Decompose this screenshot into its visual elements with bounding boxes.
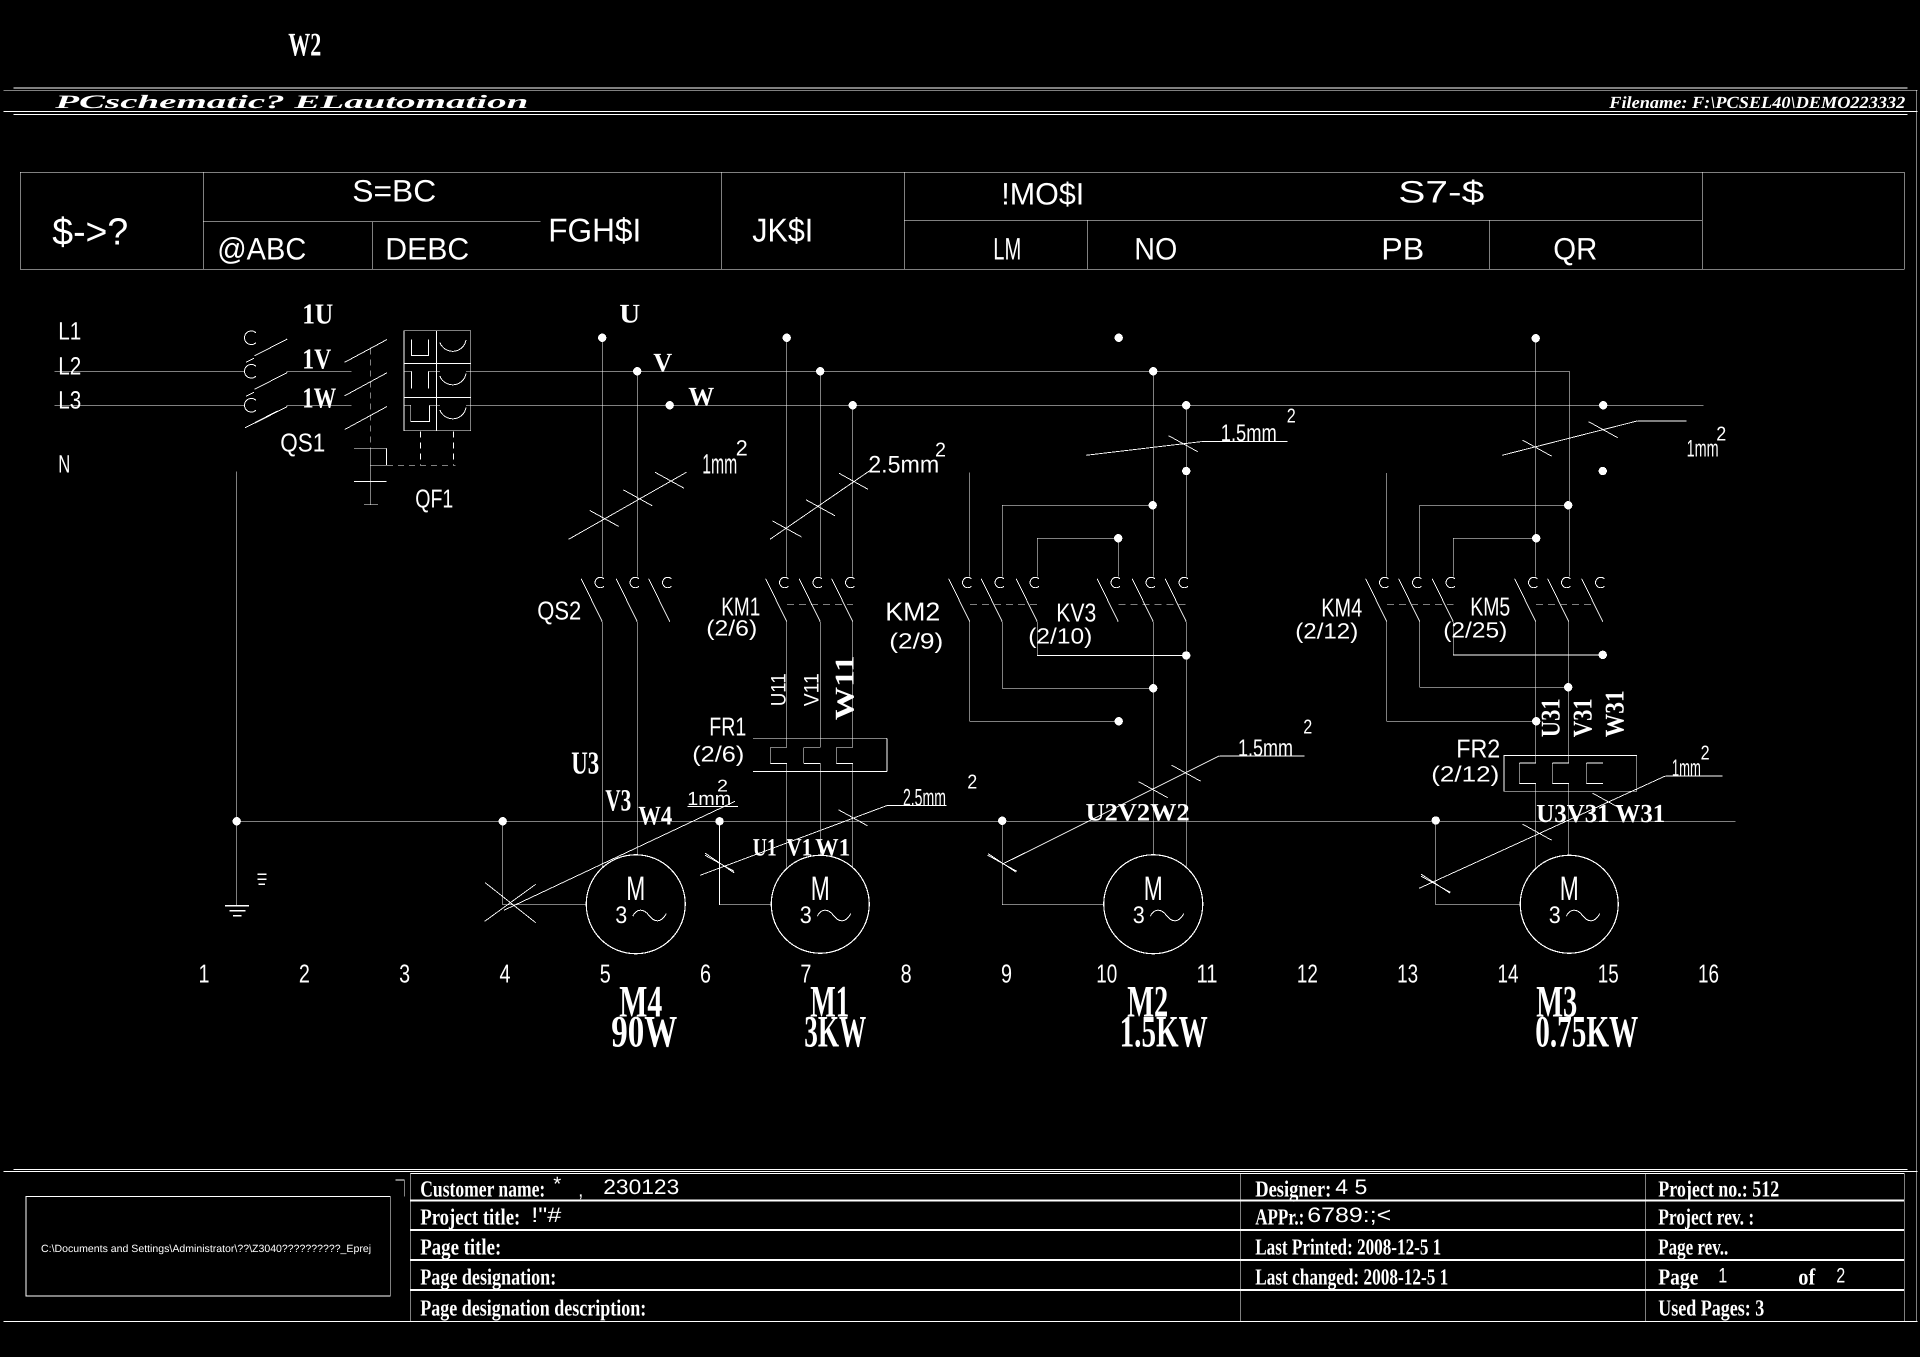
svg-text:L3: L3	[58, 386, 81, 414]
header table frame	[20, 172, 1904, 269]
label 1mm2 top right	[1687, 423, 1727, 462]
svg-text:$->?: $->?	[52, 211, 128, 253]
label 1U	[302, 298, 333, 330]
top border double rule	[3, 88, 1917, 115]
svg-text:U: U	[619, 298, 640, 328]
contactor KM5 pole 1	[1515, 577, 1538, 621]
wire W1 to motor M1	[852, 764, 854, 868]
KM4 linkage dashed	[1387, 604, 1454, 606]
svg-text:(2/9): (2/9)	[889, 628, 943, 653]
svg-text:10: 10	[1096, 958, 1117, 988]
wire V2 to motor M2	[1152, 622, 1154, 855]
svg-text:QS1: QS1	[280, 427, 325, 457]
node W feeder tap 2	[849, 401, 857, 409]
field page number	[1658, 1264, 1845, 1290]
svg-text:L1: L1	[58, 317, 81, 345]
label W	[688, 381, 714, 411]
field last changed	[1255, 1264, 1448, 1290]
FR2 heater 1	[1519, 763, 1536, 784]
wire 1W segment	[286, 404, 351, 406]
cable mark 1mm2 feeder M4	[569, 472, 687, 539]
label W31 rotated	[1599, 690, 1629, 737]
motor M2	[1104, 855, 1203, 954]
node W feeder tap 4	[1599, 401, 1607, 409]
svg-text:QR: QR	[1553, 231, 1597, 266]
svg-text:5: 5	[600, 958, 611, 988]
header cell FGH$I	[548, 211, 641, 248]
field page rev	[1658, 1234, 1728, 1260]
svg-text:V3: V3	[605, 782, 631, 817]
wire U31 upper	[1535, 622, 1537, 763]
label FR1	[709, 711, 746, 741]
svg-text:4: 4	[499, 958, 510, 988]
KM2 feed elbows	[969, 472, 971, 576]
PE mark	[257, 874, 266, 884]
svg-text:2: 2	[1303, 716, 1312, 738]
wire V3 down to KV3	[1152, 371, 1154, 576]
contactor KM1 pole 1	[766, 577, 789, 621]
svg-text:2: 2	[1287, 405, 1296, 427]
node V4 tap KM4	[1564, 501, 1572, 509]
svg-text:1.5mm: 1.5mm	[1238, 735, 1293, 762]
svg-text:Customer name:: Customer name:	[420, 1176, 545, 1201]
neutral conductor to earth bus	[236, 471, 238, 905]
svg-text:(2/6): (2/6)	[706, 615, 757, 640]
svg-text:QS2: QS2	[537, 595, 581, 625]
svg-text:3: 3	[1549, 902, 1561, 929]
svg-text:C:\Documents and Settings\Ad: C:\Documents and Settings\Administrator\…	[41, 1243, 371, 1255]
svg-text:1mm: 1mm	[1672, 755, 1701, 782]
value customer name	[553, 1173, 679, 1201]
contactor KV3 pole 2	[1132, 577, 1155, 621]
svg-text:W: W	[688, 381, 714, 411]
KM4 cross reference	[1295, 618, 1358, 643]
svg-text:Page designation:: Page designation:	[420, 1264, 556, 1290]
header filename label	[1608, 93, 1906, 112]
svg-text:2: 2	[736, 435, 748, 460]
svg-text:90W: 90W	[611, 1006, 677, 1056]
wire V31 upper	[1568, 622, 1570, 763]
contactor KM1 label	[721, 591, 760, 621]
wire 1V segment	[286, 370, 351, 372]
svg-text:FR2: FR2	[1456, 733, 1500, 763]
svg-text:7: 7	[800, 958, 811, 988]
svg-text:3KW: 3KW	[804, 1006, 866, 1056]
node U feeder tap 4	[1532, 334, 1540, 342]
header title PCschematic ELautomation	[53, 92, 528, 113]
svg-text:12: 12	[1297, 958, 1318, 988]
field approved	[1255, 1204, 1391, 1230]
svg-text:Project rev. :: Project rev. :	[1658, 1204, 1754, 1229]
cable cross M1 PE	[705, 853, 734, 873]
contactor KM2 pole 1	[949, 577, 972, 621]
svg-text:13: 13	[1397, 958, 1418, 988]
field project no	[1658, 1176, 1779, 1201]
label M3	[1536, 976, 1577, 1026]
wire U4 down to KM5	[1535, 338, 1537, 576]
motor M3	[1520, 855, 1618, 953]
svg-text:M: M	[1560, 870, 1579, 908]
label U1 V1 W1	[753, 834, 851, 861]
svg-text:1.5mm: 1.5mm	[1221, 420, 1277, 447]
label 3KW	[804, 1006, 866, 1056]
label V	[653, 347, 672, 377]
cable cross M3 PE	[1421, 874, 1450, 893]
contactor KM1 pole 3	[832, 577, 855, 621]
contactor KM4 label	[1321, 592, 1362, 622]
cable mark 2.5mm2 motor M1	[700, 806, 946, 876]
label U31 rotated	[1535, 698, 1565, 737]
label 1V	[302, 343, 331, 375]
label U	[619, 298, 640, 328]
label 90W	[611, 1006, 677, 1056]
svg-text:@ABC: @ABC	[217, 231, 306, 266]
disconnect switch QS1	[244, 331, 287, 428]
svg-text:!MO$I: !MO$I	[1001, 176, 1084, 211]
contactor KM5 pole 2	[1548, 577, 1571, 621]
svg-text:M: M	[1144, 870, 1163, 908]
label 2.5mm2 top	[868, 439, 946, 478]
label M2	[1127, 976, 1168, 1026]
svg-text:!"#: !"#	[531, 1204, 561, 1227]
page right border	[1916, 90, 1918, 1321]
svg-text:(2/12): (2/12)	[1431, 761, 1499, 786]
svg-text:1.5KW: 1.5KW	[1120, 1006, 1208, 1056]
switch QS2 label	[537, 595, 581, 625]
svg-text:11: 11	[1197, 958, 1218, 988]
svg-text:W4: W4	[638, 800, 672, 830]
header cell @ABC	[217, 231, 306, 266]
FR1 heater 3	[836, 747, 853, 763]
PE drop to M3	[1432, 816, 1521, 905]
label W4	[638, 800, 672, 830]
header cell NO	[1134, 231, 1177, 266]
svg-text:APPr.:: APPr.:	[1255, 1204, 1304, 1229]
switch QS2 pole 3	[649, 577, 672, 621]
value project title	[531, 1204, 561, 1227]
svg-text:U3V31 W31: U3V31 W31	[1536, 799, 1665, 828]
svg-text:2.5mm: 2.5mm	[868, 451, 939, 478]
cable cross M4 PE	[485, 883, 536, 923]
field page title	[420, 1234, 501, 1260]
wire V3 to motor M4	[636, 622, 638, 855]
KM2 linkage dashed	[970, 604, 1038, 606]
field designer	[1255, 1176, 1367, 1203]
FR2 cross reference	[1431, 761, 1499, 786]
svg-text:(2/10): (2/10)	[1028, 623, 1092, 648]
cable cross M2 PE	[988, 854, 1017, 873]
KM1 cross reference	[706, 615, 757, 640]
svg-text:N: N	[58, 450, 70, 478]
wire U31 to motor M3	[1535, 783, 1537, 868]
svg-text:1U: 1U	[302, 298, 333, 330]
svg-text:S7-$: S7-$	[1398, 174, 1484, 209]
svg-text:4 5: 4 5	[1335, 1176, 1367, 1199]
cable mark 1mm2 feeder M3	[1502, 421, 1686, 456]
svg-text:9: 9	[1001, 958, 1012, 988]
project file box	[26, 1197, 390, 1297]
switch QS2 pole 1	[581, 577, 604, 621]
wire V down to QS2	[636, 371, 638, 576]
title block table	[395, 1174, 1904, 1322]
label 1.5KW	[1120, 1006, 1208, 1056]
KM5 cross reference	[1443, 617, 1507, 642]
label V31 rotated	[1567, 698, 1597, 737]
contactor KM5 label	[1470, 591, 1510, 621]
header cell $->?	[52, 211, 128, 253]
svg-text:Used Pages: 3: Used Pages: 3	[1658, 1295, 1764, 1321]
svg-text:NO: NO	[1134, 231, 1177, 266]
V phase bus	[471, 370, 1570, 372]
contactor KV3 pole 3	[1165, 577, 1188, 621]
thermal overload FR2	[1504, 756, 1637, 792]
thermal overload FR1	[753, 738, 887, 771]
bottom border double rule	[3, 1169, 1917, 1171]
svg-text:U11: U11	[767, 673, 790, 706]
label 1.5mm2 M2	[1238, 716, 1312, 762]
contactor KM2 pole 2	[981, 577, 1004, 621]
contactor KV3 pole 1	[1097, 577, 1120, 621]
label 2.5mm2 M1	[903, 771, 977, 811]
svg-text:FGH$I: FGH$I	[548, 211, 641, 248]
wire U down to QS2	[601, 338, 603, 577]
svg-text:3: 3	[800, 902, 812, 929]
FR1 heater 2	[804, 747, 821, 763]
bottom frame line	[3, 1321, 1917, 1323]
svg-text:Page designation description:: Page designation description:	[420, 1295, 646, 1321]
svg-text:LM: LM	[993, 231, 1021, 266]
PE drop to M2	[998, 817, 1104, 905]
node W feeder tap 3	[1182, 401, 1190, 409]
contactor KV3 label	[1056, 597, 1096, 627]
KM2 output elbows	[970, 622, 1123, 726]
wire V1 to motor M1	[819, 764, 821, 856]
svg-text:1: 1	[199, 958, 210, 988]
svg-text:1mm: 1mm	[702, 448, 737, 479]
svg-text:V31: V31	[1567, 698, 1597, 737]
svg-text:2: 2	[1836, 1264, 1845, 1287]
svg-text:6: 6	[700, 958, 711, 988]
svg-text:1W: 1W	[302, 382, 336, 414]
label 1mm2 M4	[687, 776, 731, 810]
svg-text:2: 2	[1701, 742, 1710, 764]
label M1	[810, 976, 849, 1026]
label V3	[605, 782, 631, 817]
wire W down to KM1	[852, 405, 854, 576]
label U11 rotated	[767, 673, 790, 706]
svg-text:U2V2W2: U2V2W2	[1086, 799, 1190, 826]
file path text	[41, 1243, 371, 1255]
KV3 cross reference	[1028, 623, 1092, 648]
label U3V31 W31	[1536, 799, 1665, 828]
header cell PB	[1381, 231, 1424, 266]
svg-text:Last Printed: 2008-12-5 1: Last Printed: 2008-12-5 1	[1255, 1234, 1441, 1259]
wire U1 to motor M1	[786, 764, 788, 869]
contactor KM4 pole 3	[1432, 577, 1455, 621]
label L2	[58, 352, 81, 380]
header cell !MO$I	[1001, 176, 1084, 211]
header cell DEBC	[385, 231, 469, 266]
svg-text:Project no.: 512: Project no.: 512	[1658, 1176, 1779, 1201]
svg-text:(2/12): (2/12)	[1295, 618, 1358, 643]
svg-text:FR1: FR1	[709, 711, 746, 741]
svg-text:0.75KW: 0.75KW	[1535, 1006, 1638, 1056]
label QS1	[280, 427, 325, 457]
node V feeder tap 2	[816, 367, 824, 375]
svg-text:W11: W11	[829, 655, 859, 720]
field last printed	[1255, 1234, 1441, 1259]
field customer name	[420, 1176, 545, 1201]
svg-text:V11: V11	[800, 673, 823, 706]
svg-text:2: 2	[967, 771, 977, 793]
svg-text:14: 14	[1497, 958, 1518, 988]
svg-text:S=BC: S=BC	[352, 173, 436, 208]
cable mark 1.5mm2 feeder M2	[1086, 436, 1287, 456]
svg-text:Last changed: 2008-12-5 1: Last changed: 2008-12-5 1	[1255, 1264, 1448, 1290]
switch QS2 pole 2	[616, 577, 639, 621]
field project title	[420, 1204, 520, 1229]
page reference label W2	[288, 27, 321, 63]
svg-text:3: 3	[399, 958, 410, 988]
KV3 linkage dashed	[1118, 604, 1186, 606]
header cell S=BC	[352, 173, 436, 208]
svg-text:Designer:: Designer:	[1255, 1176, 1331, 1202]
svg-text:PCschematic? ELautomation: PCschematic? ELautomation	[53, 92, 528, 113]
label QF1	[415, 483, 453, 513]
motor M4	[586, 855, 685, 954]
FR2 heater 2	[1552, 763, 1569, 784]
svg-text:1mm: 1mm	[1687, 435, 1719, 462]
contactor KM4 pole 1	[1366, 577, 1389, 621]
wire KV3 pole1 feed	[1117, 538, 1119, 576]
svg-text:15: 15	[1598, 958, 1619, 988]
label 1W	[302, 382, 336, 414]
wire V1 upper	[819, 622, 821, 748]
svg-text:U3: U3	[571, 744, 599, 780]
header cell S7-$	[1398, 174, 1484, 209]
wire W3 down to KV3	[1185, 405, 1187, 576]
svg-text:,: ,	[578, 1179, 583, 1201]
svg-text:of: of	[1798, 1264, 1815, 1289]
motor M1	[771, 855, 869, 953]
node W4 branch (hidden wire)	[1599, 467, 1607, 475]
svg-text:Page rev..: Page rev..	[1658, 1234, 1728, 1260]
svg-text:1V: 1V	[302, 343, 331, 375]
svg-text:2: 2	[299, 958, 310, 988]
PE drop to M4	[499, 817, 587, 905]
node W feeder tap 1	[666, 401, 674, 409]
KM4 feed elbows	[1386, 473, 1388, 577]
svg-text:W31: W31	[1599, 690, 1629, 737]
field used pages	[1658, 1295, 1764, 1321]
svg-text:U31: U31	[1535, 698, 1565, 737]
label 1mm2 top	[702, 435, 748, 479]
contactor KM1 pole 2	[799, 577, 822, 621]
node U feeder tap 2	[783, 334, 791, 342]
KM5 linkage dashed	[1536, 604, 1594, 606]
ground symbol	[225, 906, 249, 916]
wire V31 to motor M3	[1568, 783, 1570, 855]
circuit breaker QF1	[345, 340, 387, 430]
node U feeder tap 3 (hidden wire)	[1115, 334, 1123, 342]
cable mark 1mm2 motor M4	[504, 801, 738, 910]
contactor KM5 pole 3	[1582, 577, 1605, 621]
svg-text:230123: 230123	[603, 1176, 679, 1199]
svg-text:16: 16	[1698, 958, 1719, 988]
svg-text:3: 3	[1133, 902, 1145, 929]
KM1 linkage dashed	[787, 604, 853, 606]
label FR2	[1456, 733, 1500, 763]
svg-text:6789:;<: 6789:;<	[1307, 1204, 1391, 1227]
svg-text:Page title:: Page title:	[420, 1234, 501, 1260]
svg-text:*: *	[553, 1173, 561, 1195]
svg-text:2: 2	[935, 439, 946, 461]
label L3	[58, 386, 81, 414]
contactor KM4 pole 2	[1399, 577, 1422, 621]
header cell JK$I	[752, 211, 813, 248]
svg-text:1: 1	[1718, 1264, 1727, 1287]
svg-text:(2/6): (2/6)	[692, 741, 744, 766]
svg-text:DEBC: DEBC	[385, 231, 469, 266]
label U3	[571, 744, 599, 780]
header cell QR	[1553, 231, 1597, 266]
svg-text:2: 2	[1716, 423, 1726, 445]
wire U3 to motor M4	[601, 622, 603, 868]
wire L2 incoming	[54, 370, 244, 372]
svg-text:L2: L2	[58, 352, 81, 380]
label W11 rotated	[829, 655, 859, 720]
label N	[58, 450, 70, 478]
wire L3 incoming	[54, 404, 244, 406]
node U4 tap KM4	[1532, 534, 1540, 542]
W phase bus	[471, 404, 1704, 406]
svg-text:Project title:: Project title:	[420, 1204, 520, 1229]
field project rev	[1658, 1204, 1754, 1229]
svg-text:2: 2	[717, 776, 728, 795]
FR2 heater 3	[1586, 763, 1603, 784]
QF1 trip unit	[354, 448, 387, 505]
cable mark 2.5mm2 feeder M1	[770, 470, 871, 539]
svg-text:Page: Page	[1658, 1264, 1698, 1290]
svg-text:Filename: F:\PCSEL40\DEMO22333: Filename: F:\PCSEL40\DEMO223332	[1608, 93, 1906, 112]
svg-text:M: M	[811, 870, 830, 908]
node U feeder tap 1	[598, 334, 606, 342]
wire V down to KM1	[819, 371, 821, 576]
label 1.5mm2 top	[1221, 405, 1296, 447]
PE drop to M1	[715, 817, 771, 905]
node V feeder tap 1	[633, 367, 641, 375]
label U2V2W2	[1086, 799, 1190, 826]
contactor KM2 pole 3	[1016, 577, 1039, 621]
KM4 output elbows	[1387, 622, 1541, 726]
svg-text:KM2: KM2	[885, 596, 940, 626]
wire W2 to motor M2	[1185, 622, 1187, 868]
svg-text:PB: PB	[1381, 231, 1424, 266]
cable mark 1mm2 motor M3	[1419, 776, 1722, 888]
svg-text:8: 8	[901, 958, 912, 988]
svg-text:JK$I: JK$I	[752, 211, 813, 248]
wire V4 down to KM5	[1568, 371, 1570, 576]
svg-text:QF1: QF1	[415, 483, 453, 513]
bottom PE bus	[237, 820, 1736, 822]
FR1 cross reference	[692, 741, 744, 766]
svg-text:V: V	[653, 347, 672, 377]
wire W1 upper	[852, 622, 854, 748]
node PE bus start	[233, 817, 241, 825]
node V feeder tap 3	[1149, 367, 1157, 375]
node W3 branch (hidden wire)	[1182, 467, 1190, 475]
label L1	[58, 317, 81, 345]
